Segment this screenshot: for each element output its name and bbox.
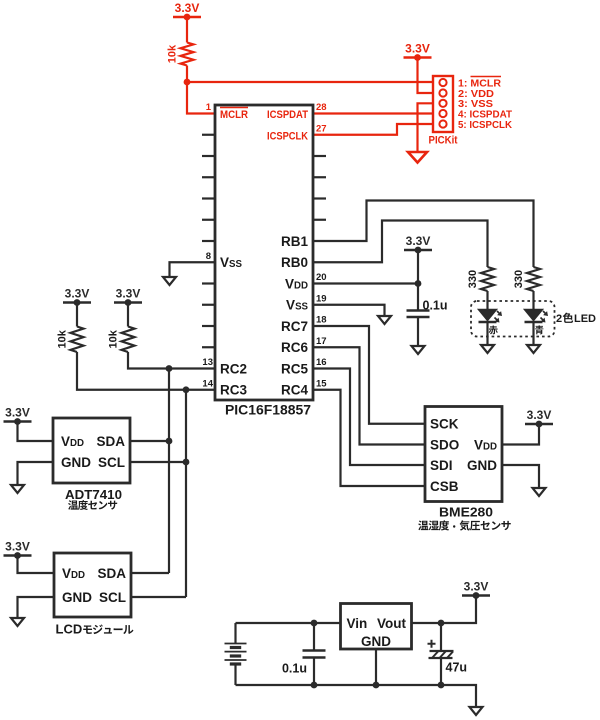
wire regulator GND to rail — [375, 649, 377, 685]
wire LCD GND to ground — [18, 597, 55, 618]
wire PIC pin15 RC4 to BME280 CSB — [313, 390, 425, 486]
svg-text:SCL: SCL — [98, 455, 125, 470]
power 3.3V rail (ADT7410) — [4, 420, 32, 422]
wire resistor to node — [186, 66, 188, 83]
wire 3.3V to resistor — [76, 303, 78, 327]
node C3 to rail — [438, 682, 445, 689]
node VDD/cap junction — [415, 280, 422, 287]
svg-text:Vout: Vout — [377, 616, 406, 631]
capacitor C1 0.1u plates — [407, 309, 430, 311]
svg-text:Vin: Vin — [347, 616, 368, 631]
wire capacitor to ground — [417, 317, 419, 346]
pin stubs left side pins 2-7 — [202, 134, 215, 136]
svg-text:3.3V: 3.3V — [5, 406, 30, 420]
capacitor C2 0.1u input — [313, 623, 315, 651]
power 3.3V rail (LCD) — [4, 554, 32, 556]
svg-text:GND: GND — [62, 590, 92, 605]
wire BME280 VDD to 3.3V — [502, 424, 539, 445]
pin stubs left side pins 9-12 — [202, 282, 215, 284]
wire PIC pin8 Vss to ground — [170, 262, 216, 277]
svg-text:330: 330 — [513, 270, 525, 288]
node output cap junction — [438, 620, 445, 627]
resistor 330 (blue LED) — [527, 267, 540, 291]
svg-text:15: 15 — [316, 378, 327, 389]
module U3 LCD body — [54, 553, 131, 617]
label onshitsudo/kiatsu sensor (JP) — [418, 520, 428, 530]
power 3.3V rail (PICkit VDD) — [404, 56, 432, 58]
ground (PIC Vss pin19) — [378, 316, 391, 324]
ground (red LED D1) — [481, 345, 494, 353]
wire blue LED D2 cathode to ground — [532, 322, 534, 345]
wire PIC pin16 RC5 to BME280 SDI — [313, 369, 425, 466]
svg-text:14: 14 — [202, 378, 213, 389]
svg-text:RC3: RC3 — [220, 383, 247, 398]
wire resistor to PIC pin14 RC3 — [77, 352, 215, 390]
svg-text:MCLR: MCLR — [220, 109, 248, 121]
node input cap junction — [311, 620, 318, 627]
ground (PICkit) — [408, 152, 427, 163]
red LED D1 diode symbol — [479, 310, 497, 321]
ground (LCD) — [11, 618, 24, 626]
plus sign of C3 — [428, 640, 436, 648]
blue LED D2 emission arrows — [541, 311, 547, 321]
wire resistor to PIC pin13 RC2 — [128, 352, 215, 369]
power 3.3V rail (SDA pull-up) — [114, 301, 142, 303]
node SCL at ADT7410 — [183, 459, 190, 466]
svg-text:5: ICSPCLK: 5: ICSPCLK — [458, 119, 512, 131]
svg-text:SDI: SDI — [430, 458, 453, 473]
sensor U2 ADT7410 body — [53, 418, 130, 483]
wire 3.3V to resistor — [127, 303, 129, 327]
label ondo sensor (JP) — [68, 500, 78, 510]
svg-text:8: 8 — [206, 251, 211, 262]
svg-text:28: 28 — [316, 102, 327, 113]
svg-text:3.3V: 3.3V — [175, 1, 200, 15]
ground (power rail) — [470, 707, 483, 715]
wire node to PICkit pin1 — [187, 81, 439, 83]
pin 2 circle of PICkit — [439, 89, 446, 96]
wire PIC pin20 VDD to cap node — [313, 282, 418, 284]
svg-text:ICSPDAT: ICSPDAT — [267, 109, 308, 121]
wire LCD SCL to bus — [131, 596, 186, 598]
ground (PIC Vss pin8) — [163, 277, 176, 285]
power 3.3V rail (MCLR pull-up) — [173, 16, 201, 18]
pin 5 circle of PICkit — [439, 120, 446, 127]
wire ADT7410 GND to ground — [18, 462, 54, 485]
pin 3 circle of PICkit — [439, 100, 446, 107]
wire red LED D1 cathode to ground — [486, 322, 488, 345]
wire PIC pin22 RB1 to resistor (blue LED) — [313, 201, 534, 268]
wire SDA bus vertical — [168, 369, 170, 574]
svg-text:SCK: SCK — [430, 417, 459, 432]
op IC U1 PIC16F18857 body — [215, 105, 313, 400]
svg-text:27: 27 — [316, 123, 327, 134]
overline on MCLR of PICkit pin1 label — [471, 76, 502, 78]
svg-text:0.1u: 0.1u — [423, 299, 448, 313]
svg-text:330: 330 — [467, 270, 479, 288]
wire battery + to regulator Vin — [236, 622, 341, 624]
battery B1 — [234, 623, 236, 644]
resistor 10k (SDA pull-up) — [122, 327, 135, 353]
wire 3.3V to LCD VDD — [18, 556, 55, 574]
capacitor C3 47u electrolytic — [440, 623, 442, 651]
wire ADT7410 SDA to bus — [130, 440, 169, 442]
ground (BME280) — [533, 488, 546, 496]
wire 3.3V to ADT7410 VDD — [18, 422, 54, 442]
wire PICkit pin3 VSS to ground — [418, 103, 440, 152]
svg-text:GND: GND — [361, 634, 391, 649]
node regulator GND to rail — [373, 682, 380, 689]
wire BME280 GND to ground — [502, 465, 539, 488]
wire SCL bus vertical — [185, 390, 187, 597]
svg-text:SCL: SCL — [99, 590, 126, 605]
svg-text:3.3V: 3.3V — [405, 42, 430, 56]
svg-text:3.3V: 3.3V — [116, 287, 141, 301]
wire 3.3V to resistor — [186, 17, 188, 43]
svg-text:ICSPCLK: ICSPCLK — [267, 130, 308, 142]
svg-text:GND: GND — [467, 458, 497, 473]
svg-text:RB1: RB1 — [281, 234, 308, 249]
svg-text:SDA: SDA — [96, 434, 125, 449]
wire node to PIC pin1 MCLR — [187, 82, 215, 114]
sensor U4 BME280 body — [425, 407, 502, 502]
label 赤 (JP) — [489, 325, 498, 334]
svg-text:13: 13 — [202, 357, 213, 368]
svg-text:RC4: RC4 — [281, 383, 308, 398]
svg-text:19: 19 — [316, 293, 327, 304]
dashed box 2-color LED — [471, 301, 555, 337]
ground (blue LED D2) — [527, 345, 540, 353]
svg-text:10k: 10k — [167, 44, 179, 63]
node C2 to rail — [311, 682, 318, 689]
wire regulator Vout to 3.3V — [412, 596, 477, 624]
wire PIC pin28 ICSPDAT to PICkit pin4 — [313, 112, 439, 114]
connector J1 PICkit body — [433, 76, 453, 132]
svg-text:3.3V: 3.3V — [5, 540, 30, 554]
svg-text:47u: 47u — [446, 661, 468, 675]
power 3.3V rail (PIC VDD) — [404, 249, 432, 251]
wire LCD SDA to bus — [131, 572, 169, 574]
pin stubs right side pins 23-26 — [313, 155, 326, 157]
wire 3.3V to PICkit pin2 — [418, 58, 440, 94]
svg-text:RC5: RC5 — [281, 361, 308, 376]
wire PIC pin19 Vss to ground — [313, 305, 385, 316]
wire PIC pin27 ICSPCLK to PICkit pin5 — [313, 124, 439, 135]
svg-text:0.1u: 0.1u — [282, 662, 307, 676]
node SCL bus junction at RC3 — [183, 386, 190, 393]
svg-text:3.3V: 3.3V — [406, 234, 431, 248]
node SDA bus junction at RC2 — [166, 365, 173, 372]
label 青 (JP) — [535, 325, 543, 334]
svg-text:PIC16F18857: PIC16F18857 — [225, 403, 311, 418]
svg-text:CSB: CSB — [430, 479, 459, 494]
wire PIC pin18 RC7 to BME280 SCK — [313, 326, 425, 424]
pin 4 circle of PICkit — [439, 110, 446, 117]
svg-text:SDO: SDO — [430, 437, 459, 452]
wire resistor to red LED D1 — [486, 291, 488, 310]
svg-text:17: 17 — [316, 336, 327, 347]
svg-text:3.3V: 3.3V — [527, 408, 552, 422]
resistor 10k (SCL pull-up) — [71, 327, 84, 353]
node MCLR junction — [184, 79, 191, 86]
resistor 330 (red LED) — [481, 267, 494, 291]
svg-text:16: 16 — [316, 357, 327, 368]
power 3.3V rail (SCL pull-up) — [63, 301, 91, 303]
wire resistor to blue LED D2 — [532, 291, 534, 310]
svg-text:SDA: SDA — [97, 566, 126, 581]
svg-text:18: 18 — [316, 315, 327, 326]
power 3.3V rail (output) — [462, 594, 490, 596]
ground (ADT7410) — [11, 485, 24, 493]
svg-text:2: 2 — [556, 313, 562, 325]
resistor 10k (MCLR pull-up) — [181, 43, 194, 66]
wire PIC pin17 RC6 to BME280 SDO — [313, 347, 425, 444]
red LED D1 emission arrows — [495, 311, 501, 321]
svg-text:GND: GND — [61, 455, 91, 470]
svg-text:10k: 10k — [108, 329, 120, 348]
svg-text:ADT7410: ADT7410 — [65, 487, 122, 502]
svg-text:RB0: RB0 — [281, 255, 308, 270]
svg-text:10k: 10k — [57, 329, 69, 348]
node SDA at ADT7410 — [166, 438, 173, 445]
regulator U5 body — [341, 604, 412, 650]
svg-text:RC2: RC2 — [220, 361, 247, 376]
wire PIC pin21 RB0 to resistor (red LED) — [313, 221, 488, 268]
svg-text:BME280: BME280 — [439, 505, 493, 520]
svg-text:LCD: LCD — [56, 622, 83, 637]
svg-text:RC6: RC6 — [281, 340, 308, 355]
wire ground rail — [236, 685, 477, 707]
svg-text:LED: LED — [574, 313, 596, 325]
wire 3.3V down through node to capacitor — [417, 250, 419, 311]
svg-text:20: 20 — [316, 272, 327, 283]
blue LED D2 diode symbol — [525, 310, 543, 321]
ground (C1) — [412, 346, 425, 354]
svg-text:RC7: RC7 — [281, 319, 308, 334]
svg-text:3.3V: 3.3V — [464, 580, 489, 594]
power 3.3V rail (BME280) — [525, 423, 553, 425]
svg-text:1: 1 — [206, 102, 212, 113]
pin 1 circle of PICkit — [439, 79, 446, 86]
wire ADT7410 SCL to bus — [130, 461, 186, 463]
svg-text:PICKit: PICKit — [429, 135, 458, 147]
svg-text:3.3V: 3.3V — [65, 287, 90, 301]
